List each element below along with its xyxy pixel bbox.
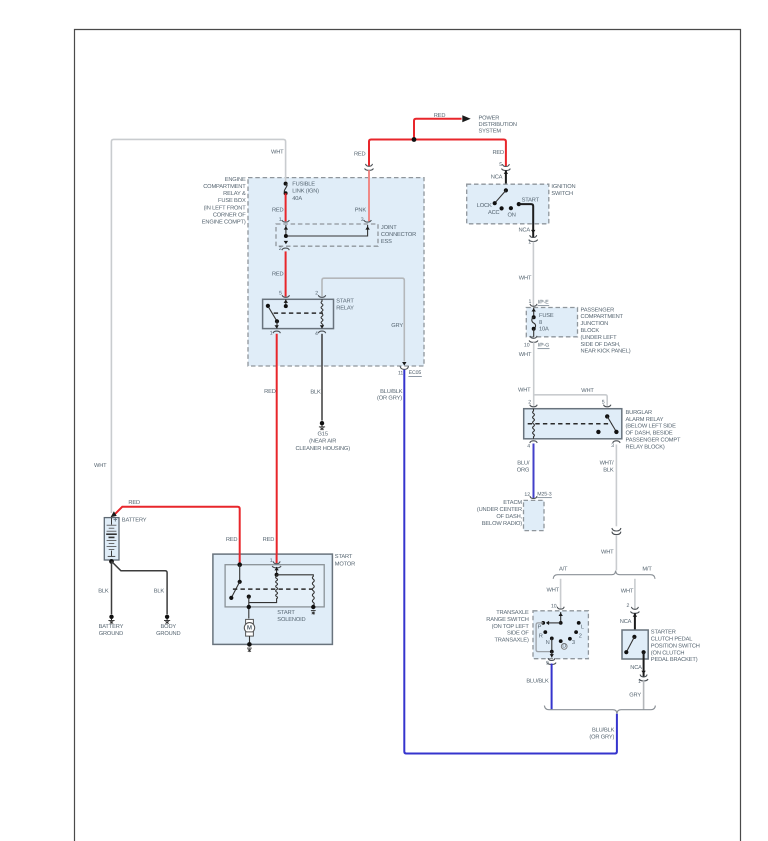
node solenoid output at box xyxy=(247,605,251,609)
node 2 contact xyxy=(574,630,578,634)
svg-text:2: 2 xyxy=(279,246,282,252)
solenoid contact xyxy=(229,596,233,600)
wire RED relay feed inside motor box xyxy=(276,553,278,563)
svg-text:1: 1 xyxy=(529,299,532,305)
svg-text:5: 5 xyxy=(602,400,605,406)
fusible link node top xyxy=(284,182,288,186)
svg-text:BLK: BLK xyxy=(154,589,165,595)
label BODY GROUND xyxy=(156,624,180,637)
svg-text:WHT: WHT xyxy=(621,588,634,594)
svg-text:NCA: NCA xyxy=(518,228,530,234)
underline I/P-E xyxy=(538,305,550,307)
connector pin 9 transaxle xyxy=(547,658,556,664)
wire WHT junction block to burglar relay pin 2 xyxy=(533,342,535,406)
svg-text:BATTERY: BATTERY xyxy=(99,624,124,630)
transaxle exit stub xyxy=(551,652,553,658)
svg-text:WHT: WHT xyxy=(601,550,614,556)
node transaxle entry xyxy=(559,621,563,625)
svg-text:SIDE OF: SIDE OF xyxy=(507,631,529,637)
label WHT/ BLK xyxy=(600,459,614,473)
svg-text:N: N xyxy=(546,640,550,646)
svg-text:SYSTEM: SYSTEM xyxy=(479,129,502,135)
svg-text:10A: 10A xyxy=(539,327,549,333)
svg-text:BLK: BLK xyxy=(98,589,109,595)
svg-text:RED: RED xyxy=(263,537,275,543)
svg-text:RELAY BLOCK): RELAY BLOCK) xyxy=(626,443,665,450)
connector IPE xyxy=(529,304,538,310)
solenoid coil bridge xyxy=(277,575,315,607)
svg-text:PNK: PNK xyxy=(355,207,367,213)
svg-text:RED: RED xyxy=(128,500,140,506)
underline I/P-G xyxy=(538,348,550,350)
N contact drop xyxy=(551,638,553,651)
battery xyxy=(104,517,119,560)
svg-text:CORNER OF: CORNER OF xyxy=(213,212,246,218)
clutch pivot xyxy=(632,635,636,639)
svg-text:4: 4 xyxy=(527,444,530,450)
wire WHT to clutch switch xyxy=(634,579,636,609)
wire WHT branch to burglar relay pin 5 xyxy=(534,395,608,406)
node joint bus xyxy=(284,234,288,238)
svg-text:DISTRIBUTION: DISTRIBUTION xyxy=(479,122,517,128)
arrow out ignition xyxy=(531,230,535,233)
svg-text:GROUND: GROUND xyxy=(99,631,123,637)
fusible link element xyxy=(284,184,287,194)
svg-text:M/T: M/T xyxy=(642,566,652,573)
svg-text:D: D xyxy=(562,644,566,650)
svg-text:(OR GRY): (OR GRY) xyxy=(377,395,402,402)
svg-text:BELOW RADIO): BELOW RADIO) xyxy=(482,520,522,527)
connector pin 1 start motor xyxy=(272,561,281,567)
svg-text:FUSIBLE: FUSIBLE xyxy=(292,182,315,188)
relay switch arm xyxy=(269,307,277,321)
svg-text:3: 3 xyxy=(361,217,364,223)
node junction top red xyxy=(412,137,417,142)
ignition START contact xyxy=(517,202,521,206)
arrow up pin 1 xyxy=(284,226,288,229)
svg-text:1: 1 xyxy=(279,217,282,223)
svg-text:NCA: NCA xyxy=(491,174,503,180)
svg-text:10: 10 xyxy=(524,342,530,348)
svg-text:40A: 40A xyxy=(292,196,302,202)
label START RELAY xyxy=(336,298,354,311)
relay switch pivot xyxy=(266,304,270,308)
label START MOTOR xyxy=(335,554,355,567)
label BATTERY GROUND xyxy=(99,624,124,637)
label JOINT CONNECTOR ESS xyxy=(381,225,416,245)
svg-text:1: 1 xyxy=(270,331,273,337)
svg-text:1: 1 xyxy=(528,239,531,245)
label BLU/BLK (OR GRY) at EC05 xyxy=(377,388,403,402)
inline connector double xyxy=(612,528,621,531)
wire WHT battery to fusible link xyxy=(111,139,285,513)
burglar relay dashed link xyxy=(528,423,612,425)
engine compartment relay &amp; fuse box xyxy=(248,178,424,366)
arrow out relay pin1 xyxy=(275,325,279,328)
connector pin 1 start relay xyxy=(273,331,280,333)
motor M xyxy=(244,623,254,633)
svg-text:RED: RED xyxy=(492,150,504,156)
wire RED fusible link to joint connector xyxy=(285,193,287,221)
connector pin 2 burglar relay xyxy=(530,405,537,407)
connector on pnk feed xyxy=(365,164,374,170)
relay coil xyxy=(321,299,323,328)
svg-text:WHT/: WHT/ xyxy=(600,459,614,466)
svg-text:START: START xyxy=(277,610,295,616)
svg-text:WHT: WHT xyxy=(519,276,532,282)
svg-text:2: 2 xyxy=(528,400,531,406)
burglar relay pivot xyxy=(605,414,609,418)
ignition pivot xyxy=(504,188,508,192)
svg-text:GRY: GRY xyxy=(391,323,403,329)
svg-text:START: START xyxy=(335,554,353,560)
ignition LOCK contact xyxy=(493,201,497,205)
svg-text:PEDAL BRACKET): PEDAL BRACKET) xyxy=(651,656,698,663)
svg-text:SIDE OF DASH,: SIDE OF DASH, xyxy=(581,342,621,348)
svg-text:RED: RED xyxy=(272,271,284,277)
fuse 8 10A element xyxy=(532,317,536,328)
svg-text:TRANSAXLE): TRANSAXLE) xyxy=(494,636,528,643)
wire BLU/ORG to ETACM xyxy=(533,444,535,499)
connector pin 1 joint xyxy=(282,220,289,222)
burglar relay arm xyxy=(607,416,616,432)
connector pin 3 joint xyxy=(364,220,371,222)
ground battery xyxy=(108,615,114,624)
svg-text:LOCK: LOCK xyxy=(477,203,492,209)
arrow out clutch xyxy=(641,671,645,674)
svg-text:WHT: WHT xyxy=(271,149,284,155)
svg-text:BLU/BLK: BLU/BLK xyxy=(380,388,403,395)
wire RED battery feed inside motor box xyxy=(239,553,241,564)
clutch open contact xyxy=(624,650,628,654)
passenger compartment junction block xyxy=(526,308,577,337)
asterisk ground hold coil xyxy=(311,611,316,615)
svg-text:ESS: ESS xyxy=(381,239,392,245)
wire RED battery to start motor xyxy=(114,507,240,564)
svg-text:WHT: WHT xyxy=(547,588,560,594)
clutch switch arm xyxy=(626,637,634,652)
underline EC05 xyxy=(408,375,421,377)
connector pin 10 transaxle xyxy=(556,607,565,613)
wire RED power distribution feed xyxy=(369,140,506,167)
svg-text:CLUTCH PEDAL: CLUTCH PEDAL xyxy=(651,637,693,643)
svg-text:NEAR KICK PANEL): NEAR KICK PANEL) xyxy=(581,348,631,355)
connector EC05 arrow xyxy=(402,362,406,366)
svg-text:5: 5 xyxy=(499,162,502,168)
asterisk ground motor xyxy=(247,648,252,652)
inline connector double lower xyxy=(612,532,621,535)
wire RED start relay pin1 to start motor xyxy=(276,334,278,564)
arrow to power distribution system xyxy=(462,115,470,122)
node R contact xyxy=(543,630,547,634)
ignition ACC contact xyxy=(500,206,504,210)
svg-text:RED: RED xyxy=(264,389,276,395)
start relay box xyxy=(263,299,334,328)
burglar relay contact xyxy=(614,430,618,434)
svg-text:RELAY: RELAY xyxy=(336,306,354,312)
svg-text:PASSENGER: PASSENGER xyxy=(581,307,615,313)
label IGNITION SWITCH xyxy=(551,184,575,197)
start motor box xyxy=(213,554,333,644)
svg-text:ORG: ORG xyxy=(517,468,530,474)
svg-text:JUNCTION: JUNCTION xyxy=(581,321,609,327)
ignition ON contact xyxy=(509,206,513,210)
svg-text:SWITCH: SWITCH xyxy=(551,191,573,197)
svg-text:(NEAR AIR: (NEAR AIR xyxy=(309,438,336,445)
svg-text:BLU/BLK: BLU/BLK xyxy=(526,677,549,684)
connector pin 1 ignition xyxy=(529,235,538,241)
wire GRY clutch to brace xyxy=(643,680,645,710)
connector pin 3 burglar relay xyxy=(613,441,620,443)
ignition switch box xyxy=(467,184,549,224)
engine compartment box label xyxy=(202,177,247,226)
svg-text:ACC: ACC xyxy=(488,210,500,216)
arrow out transaxle xyxy=(550,654,554,657)
transaxle jumper loop xyxy=(536,623,552,652)
svg-text:CLEANER HOUSING): CLEANER HOUSING) xyxy=(295,445,350,452)
node solenoid coil top xyxy=(275,573,279,577)
wire GRY start relay pin2 to EC05 xyxy=(322,278,404,361)
solenoid pin1 stub xyxy=(276,567,278,575)
svg-text:M: M xyxy=(247,625,252,632)
svg-text:GROUND: GROUND xyxy=(156,631,180,637)
svg-text:RANGE SWITCH: RANGE SWITCH xyxy=(486,617,528,623)
solenoid switch post xyxy=(239,565,241,582)
wire NCA out of clutch switch xyxy=(643,652,645,676)
starter clutch pedal position switch box xyxy=(622,630,648,659)
solenoid pull-in coil xyxy=(276,575,278,601)
solenoid output wire xyxy=(248,597,250,619)
node D contact xyxy=(559,639,563,643)
label POWER DISTRIBUTION SYSTEM xyxy=(479,116,517,135)
arrow up pin 3 xyxy=(365,226,369,229)
ground G15 xyxy=(319,421,325,430)
node P contact xyxy=(541,621,545,625)
arrow out relay pin4 xyxy=(320,325,324,328)
svg-text:BLU/: BLU/ xyxy=(517,459,530,466)
solenoid dashed link xyxy=(233,588,313,590)
svg-text:ON: ON xyxy=(508,212,516,218)
wire NCA ignition to connector 1 xyxy=(519,204,533,237)
wire RED joint connector to start relay xyxy=(285,251,287,296)
svg-text:COMPARTMENT: COMPARTMENT xyxy=(581,314,624,320)
wire WHT ignition to junction block xyxy=(532,242,534,306)
arrow into fuse xyxy=(532,308,536,311)
svg-text:8: 8 xyxy=(539,320,542,326)
arrow into clutch xyxy=(633,613,637,616)
node transaxle exit xyxy=(550,650,554,654)
svg-text:(BELOW LEFT SIDE: (BELOW LEFT SIDE xyxy=(626,423,677,430)
svg-text:5: 5 xyxy=(279,290,282,296)
transaxle wiper line xyxy=(548,622,561,624)
arrow wiper xyxy=(546,621,549,625)
motor brush box top xyxy=(246,619,254,623)
joint connector ESS box xyxy=(276,224,378,246)
label STARTER CLUTCH PEDAL POSITION SWITCH xyxy=(651,630,700,664)
svg-text:WHT: WHT xyxy=(581,388,594,394)
svg-text:EC05: EC05 xyxy=(409,370,422,376)
node fuse bottom xyxy=(532,327,536,331)
svg-text:2: 2 xyxy=(315,290,318,296)
node L contact xyxy=(577,621,581,625)
svg-text:RELAY &: RELAY & xyxy=(223,191,246,197)
svg-text:RED: RED xyxy=(226,537,238,543)
svg-text:FUSE: FUSE xyxy=(539,313,554,319)
wire NCA into clutch switch xyxy=(634,613,636,630)
svg-text:CONNECTOR: CONNECTOR xyxy=(381,232,416,238)
connector pin 2 start relay xyxy=(318,295,325,297)
label BLU/BLK (OR GRY) xyxy=(589,726,614,740)
arrow into solenoid xyxy=(274,567,278,570)
svg-text:M25-3: M25-3 xyxy=(537,491,551,497)
start relay pin5 stub xyxy=(285,299,287,306)
svg-text:1: 1 xyxy=(638,679,641,685)
solenoid switch arm xyxy=(231,582,239,598)
svg-text:OF DASH, BESIDE: OF DASH, BESIDE xyxy=(626,431,673,437)
solenoid output post xyxy=(247,595,251,599)
label FUSIBLE LINK (IGN) 40A xyxy=(292,182,319,202)
connector EC05 socket xyxy=(400,366,408,369)
relay contact drop to pin1 xyxy=(276,321,278,328)
svg-text:NCA: NCA xyxy=(620,619,632,625)
svg-text:(IN LEFT FRONT: (IN LEFT FRONT xyxy=(204,204,247,211)
connector pin 4 burglar relay xyxy=(530,441,537,443)
svg-text:3: 3 xyxy=(611,443,614,449)
svg-text:POWER: POWER xyxy=(479,116,500,122)
svg-text:12: 12 xyxy=(524,492,530,498)
svg-text:BODY: BODY xyxy=(161,624,177,630)
wire BLU/BLK (OR GRY) return to EC05 xyxy=(404,370,617,754)
svg-text:3: 3 xyxy=(572,640,575,646)
ETACM box xyxy=(524,500,545,530)
svg-text:RED: RED xyxy=(434,113,446,119)
svg-text:START: START xyxy=(522,198,540,204)
svg-text:WHT: WHT xyxy=(518,388,531,394)
svg-text:(ON CLUTCH: (ON CLUTCH xyxy=(651,649,685,656)
svg-text:TRANSAXLE: TRANSAXLE xyxy=(496,610,529,616)
svg-text:BLK: BLK xyxy=(603,468,614,474)
connector pin 2 joint xyxy=(282,248,289,250)
svg-text:JOINT: JOINT xyxy=(381,225,397,231)
svg-text:COMPARTMENT: COMPARTMENT xyxy=(203,184,246,190)
brace AT MT split xyxy=(553,571,655,579)
label BLU/ ORG xyxy=(517,459,530,473)
svg-text:(UNDER LEFT: (UNDER LEFT xyxy=(581,334,618,341)
wire BLK start relay pin4 to ground xyxy=(321,334,323,421)
svg-text:9: 9 xyxy=(546,661,549,667)
solenoid pivot xyxy=(238,580,242,584)
svg-text:FUSE BOX: FUSE BOX xyxy=(218,198,246,204)
wire BLK battery ground xyxy=(111,561,113,614)
node relay pin5 xyxy=(284,304,288,308)
solenoid coil return xyxy=(249,600,277,602)
svg-text:R: R xyxy=(539,633,543,639)
connector pin 2 clutch xyxy=(631,607,640,613)
label TRANSAXLE RANGE SWITCH xyxy=(486,610,529,643)
joint connector internal bus xyxy=(286,225,368,236)
svg-text:ENGINE: ENGINE xyxy=(225,177,246,183)
svg-text:I/P-E: I/P-E xyxy=(538,299,550,305)
svg-text:ETACM: ETACM xyxy=(503,500,522,506)
label ETACM (UNDER CENTER OF DASH, BELOW RADIO) xyxy=(477,500,523,527)
connector pin 5 burglar relay xyxy=(604,405,611,407)
motor brush box bottom xyxy=(246,632,254,636)
svg-text:STARTER: STARTER xyxy=(651,630,676,636)
node 3 contact xyxy=(568,637,572,641)
svg-text:I/P-G: I/P-G xyxy=(538,342,550,348)
arrow into ignition xyxy=(504,171,508,174)
wire BLU/BLK transaxle to brace xyxy=(551,664,553,710)
label FUSE 8 10A xyxy=(539,313,554,333)
svg-text:POSITION SWITCH: POSITION SWITCH xyxy=(651,643,700,649)
wire WHT/BLK burglar relay to connector xyxy=(615,445,617,527)
connector pin 1 clutch xyxy=(639,675,648,681)
svg-text:1: 1 xyxy=(270,558,273,564)
wire NCA into ignition switch xyxy=(505,170,507,190)
svg-text:P: P xyxy=(538,625,542,631)
burglar relay coil xyxy=(533,409,535,439)
node hold coil bottom xyxy=(311,605,315,609)
fusible link node bottom xyxy=(284,191,288,195)
svg-text:G15: G15 xyxy=(318,432,328,438)
burglar alarm relay box xyxy=(524,409,622,439)
svg-text:BATTERY: BATTERY xyxy=(122,517,147,523)
svg-text:L: L xyxy=(581,625,584,631)
svg-text:ENGINE COMPT): ENGINE COMPT) xyxy=(202,219,246,226)
connector pin 5 start relay xyxy=(282,295,289,297)
relay switch contact xyxy=(275,319,279,323)
connector M25-3 xyxy=(529,496,538,502)
label START SOLENOID xyxy=(277,610,305,623)
connector pin 5 ignition xyxy=(502,164,511,170)
svg-text:MOTOR: MOTOR xyxy=(335,561,355,567)
svg-text:10: 10 xyxy=(551,603,557,609)
svg-text:RED: RED xyxy=(354,151,366,157)
fuse stub bottom xyxy=(533,329,535,337)
svg-text:BLU/BLK: BLU/BLK xyxy=(592,726,615,733)
arrow into relay pin5 xyxy=(284,300,288,303)
label BURGLAR ALARM RELAY xyxy=(626,410,682,451)
svg-text:WHT: WHT xyxy=(94,463,107,469)
connector pin 4 start relay xyxy=(318,331,325,333)
svg-text:(ON TOP LEFT: (ON TOP LEFT xyxy=(492,623,530,630)
svg-text:LINK (IGN): LINK (IGN) xyxy=(292,188,319,195)
svg-text:BLOCK: BLOCK xyxy=(581,328,600,334)
transaxle entry stub xyxy=(560,612,562,623)
svg-text:START: START xyxy=(336,298,354,304)
svg-text:2: 2 xyxy=(627,603,630,609)
wire WHT to AT MT split xyxy=(615,535,617,570)
arrow down pin 2 xyxy=(284,241,288,244)
node N contact xyxy=(550,637,554,641)
node battery negative xyxy=(109,559,114,564)
node fuse top xyxy=(532,315,536,319)
wire WHT to transaxle range switch xyxy=(560,579,562,609)
wire RED branch to power distribution system xyxy=(414,119,462,140)
label G15 (NEAR AIR CLEANER HOUSING) xyxy=(295,432,350,452)
svg-text:GRY: GRY xyxy=(629,693,641,699)
start solenoid box xyxy=(225,565,324,607)
svg-text:BLK: BLK xyxy=(310,390,321,396)
label PASSENGER COMPARTMENT JUNCTION BLOCK xyxy=(581,307,631,354)
svg-text:2: 2 xyxy=(579,633,582,639)
circled D xyxy=(561,644,567,650)
svg-text:OF DASH,: OF DASH, xyxy=(496,514,522,520)
svg-text:SOLENOID: SOLENOID xyxy=(277,617,305,623)
arrow into transaxle xyxy=(559,613,563,616)
svg-text:(UNDER CENTER: (UNDER CENTER xyxy=(477,506,522,513)
svg-text:11: 11 xyxy=(398,370,403,376)
